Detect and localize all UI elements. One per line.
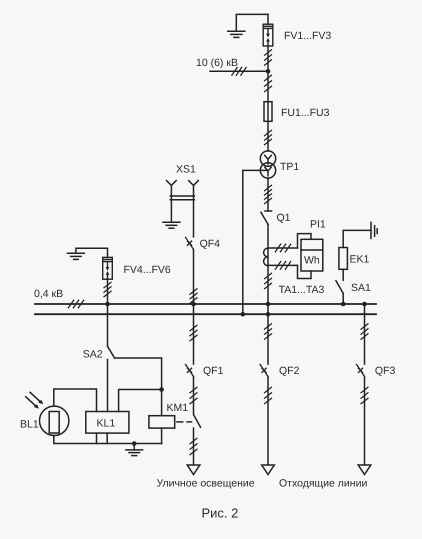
photoresistor BL1 <box>40 406 69 435</box>
contactor coil KM1 <box>149 416 175 444</box>
wire (QF4 to bus) with phase marks <box>190 249 197 304</box>
switch SA2 <box>108 346 115 358</box>
node QF3 at top bus <box>362 302 367 307</box>
surge arrester FV1...FV3 <box>263 14 273 46</box>
wire (BL1 loop bottom rail) <box>54 436 162 444</box>
wire (node to fuse) with phase marks <box>265 71 272 101</box>
svg-text:TA1...TA3: TA1...TA3 <box>279 284 325 296</box>
wire (QF3 to arrow) with phase marks <box>361 377 368 465</box>
meter PI1 (Wh) <box>298 234 323 279</box>
node TA line at bottom bus <box>266 312 271 317</box>
arrow feeder 3 <box>358 465 371 475</box>
svg-text:Уличное освещение: Уличное освещение <box>157 478 255 490</box>
node TA line at top bus <box>266 302 271 307</box>
svg-text:EK1: EK1 <box>350 254 370 266</box>
node ground tap <box>132 441 137 446</box>
svg-text:10 (6) кВ: 10 (6) кВ <box>196 57 238 69</box>
ground (top, for FV1...FV3) <box>228 14 268 37</box>
wire (BL1 loop top) <box>54 389 97 412</box>
wire (transformer to Q1) with 4 phase marks <box>265 178 272 211</box>
circuit breaker QF3 <box>357 364 365 376</box>
svg-text:XS1: XS1 <box>176 164 196 176</box>
svg-text:QF3: QF3 <box>375 365 396 377</box>
transformer TP1 <box>260 151 275 178</box>
svg-text:PI1: PI1 <box>310 219 326 231</box>
ground (FV4...FV6) <box>67 248 107 259</box>
connector XS1 <box>167 181 199 237</box>
svg-text:KL1: KL1 <box>97 418 116 430</box>
wire (SA2 right branch to KM1) <box>115 358 162 416</box>
circuit breaker QF2 <box>260 364 268 376</box>
wire (FV4 to bus) with phase marks <box>104 279 111 304</box>
ground (XS1) <box>163 222 180 228</box>
wire (KL1 bottom stubs) <box>97 433 108 443</box>
wire (bus to SA2) <box>107 304 109 346</box>
wire (fuse to transformer) with phase marks <box>265 121 272 151</box>
heater EK1 <box>339 230 371 280</box>
wire (QF2 to arrow) with phase marks <box>265 377 272 465</box>
svg-text:Отходящие линии: Отходящие линии <box>279 478 367 490</box>
node 10kV junction <box>266 69 271 74</box>
switch SA1 <box>336 281 343 304</box>
wire CT secondary top <box>268 244 298 252</box>
svg-text:SA1: SA1 <box>351 282 371 294</box>
node QF4 at top bus <box>191 302 196 307</box>
svg-text:SA2: SA2 <box>83 349 103 361</box>
wire (bus to QF3) with phase marks <box>361 304 368 364</box>
surge arrester FV4...FV6 <box>103 248 113 279</box>
node neutral-to-bus <box>241 312 246 317</box>
svg-text:Q1: Q1 <box>277 212 291 224</box>
svg-text:TP1: TP1 <box>280 161 299 173</box>
svg-text:0,4 кВ: 0,4 кВ <box>34 288 63 300</box>
arrow feeder 2 <box>262 465 275 475</box>
svg-text:BL1: BL1 <box>20 419 39 431</box>
svg-text:FU1...FU3: FU1...FU3 <box>281 107 330 119</box>
wire (KM1 contact to arrow) with phase marks <box>190 428 197 465</box>
light arrows at BL1 <box>26 392 44 408</box>
svg-text:FV1...FV3: FV1...FV3 <box>284 30 331 42</box>
contact KM1.1 <box>194 415 201 428</box>
svg-text:Wh: Wh <box>304 255 320 267</box>
ground (right of EK1, rotated) <box>371 222 377 238</box>
mechanical link KM1 (dashed) <box>177 421 192 423</box>
wire (CT to bus) with phase marks <box>265 266 272 314</box>
svg-text:QF4: QF4 <box>200 238 221 250</box>
svg-text:Рис. 2: Рис. 2 <box>202 506 239 521</box>
circuit breaker QF4 <box>186 237 194 249</box>
circuit breaker QF1 <box>186 364 194 376</box>
bus 0,4 кВ (double line) <box>35 304 376 314</box>
ground (control circuit) <box>126 444 143 456</box>
arrow feeder 1 <box>187 465 200 475</box>
switch Q1 <box>261 211 272 225</box>
node junction above KM1 <box>159 387 164 392</box>
fuse FU1...FU3 <box>264 102 272 122</box>
relay KL1 <box>86 412 129 434</box>
node SA1 at top bus <box>341 302 346 307</box>
wire (transformer neutral to bottom bus) <box>243 170 267 314</box>
wire CT secondary bottom <box>268 262 298 270</box>
phase marks on bus <box>68 300 83 308</box>
svg-text:KM1: KM1 <box>167 402 189 414</box>
current transformers TA1...TA3 <box>264 248 268 266</box>
node FV4 at top bus <box>105 302 110 307</box>
svg-text:FV4...FV6: FV4...FV6 <box>124 264 171 276</box>
svg-text:QF1: QF1 <box>203 365 224 377</box>
wire (SA2 lower to KL1 top) <box>107 360 109 412</box>
wire (bus to QF2) with phase marks <box>265 314 272 364</box>
wire (Q1 to CT) <box>267 225 269 248</box>
line 10(6) kV incoming <box>210 67 268 75</box>
wire (arrester to 10kV node) with phase marks <box>265 46 272 71</box>
wire (bus to QF1) with phase marks <box>190 304 197 364</box>
wire (junction to KL1 top) <box>119 390 162 412</box>
wire (QF1 to KM1 contact) with phase marks <box>190 377 197 414</box>
svg-text:QF2: QF2 <box>279 365 300 377</box>
